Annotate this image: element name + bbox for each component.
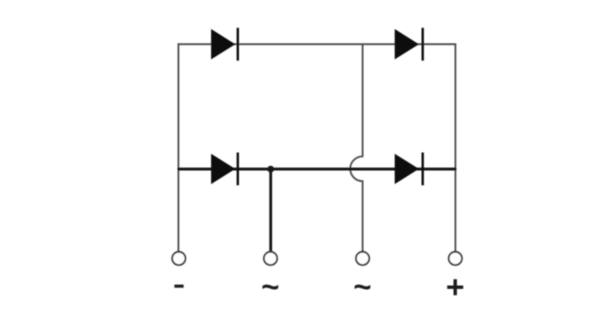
wire right vertical (top rail to terminal 4)	[454, 44, 456, 251]
terminal 1 circle (negative output)	[172, 252, 185, 265]
diode D1 (top left)	[211, 28, 239, 61]
svg-text:~: ~	[261, 269, 279, 304]
terminal 2 circle (AC input)	[264, 252, 277, 265]
wire mid vertical with crossover hop over bottom rail (to terminal 3)	[350, 44, 362, 251]
diode D2 (top right)	[395, 28, 424, 61]
wire bottom rail (bold)	[178, 168, 457, 171]
wire left vertical (top rail to terminal 1)	[177, 44, 179, 251]
label - (negative terminal)	[174, 285, 183, 288]
wire top rail	[178, 43, 457, 45]
svg-text:~: ~	[353, 269, 371, 304]
terminal 3 circle (AC input)	[356, 252, 369, 265]
diode D4 (bottom right)	[395, 153, 424, 186]
wire AC stub from junction to terminal 2 (bold)	[269, 169, 272, 251]
terminal 4 circle (positive output)	[449, 252, 462, 265]
diode D3 (bottom left)	[211, 153, 239, 186]
junction dot	[267, 166, 274, 173]
label + (positive terminal)	[447, 279, 463, 295]
